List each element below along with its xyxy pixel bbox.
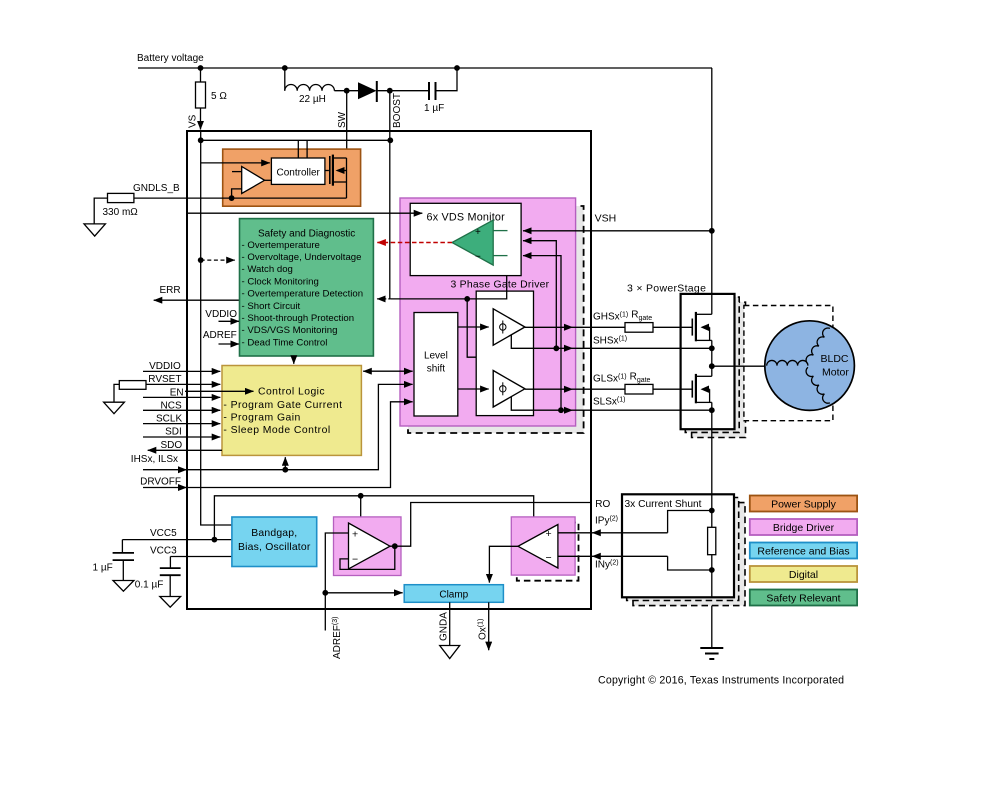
ground RVSET (114, 384, 119, 402)
ground vcc3 cap (160, 597, 181, 608)
svg-text:- Program Gate Current: - Program Gate Current (223, 400, 342, 411)
svg-text:VCC3: VCC3 (150, 545, 177, 556)
buffer low side driver (493, 371, 525, 408)
capacitor 1uF boost (428, 82, 430, 100)
svg-text:5 Ω: 5 Ω (211, 91, 227, 102)
block Control Logic (yellow) (222, 366, 361, 456)
wire GLS resistor to gate (653, 388, 692, 390)
op-amp U5 current shunt amp (pink) (511, 517, 575, 575)
legend Power Supply (750, 496, 857, 512)
wire VDS sense line to monitor (187, 212, 422, 214)
wire inductor to SW node (334, 90, 358, 92)
svg-text:1 µF: 1 µF (93, 563, 113, 574)
svg-text:ERR: ERR (160, 285, 181, 296)
wire red dashed VDS fault to safety (377, 242, 452, 244)
ground power earth (700, 647, 723, 649)
wire SW pin into chip (346, 91, 348, 158)
svg-text:SDI: SDI (165, 427, 182, 438)
block Controller box (271, 158, 325, 184)
svg-text:- Overvoltage, Undervoltage: - Overvoltage, Undervoltage (242, 252, 362, 263)
block 3x PowerStage box (681, 294, 735, 429)
capacitor 1uF vcc5 (121, 540, 123, 553)
wire right drain rail (711, 68, 713, 294)
capacitor 0.1uF vcc3 (169, 557, 171, 569)
legend Safety Relevant (750, 590, 857, 606)
svg-text:Safety and Diagnostic: Safety and Diagnostic (258, 229, 355, 240)
transistor M2 high side FET (691, 319, 693, 336)
block power stage shadows (692, 302, 746, 437)
svg-text:SW: SW (337, 111, 348, 128)
wire internal top rail (201, 139, 391, 141)
wire VCC5 bias rail (214, 496, 533, 540)
svg-text:0.1 µF: 0.1 µF (135, 580, 164, 591)
node Ox pin (488, 602, 490, 650)
svg-text:Bridge Driver: Bridge Driver (773, 522, 835, 534)
wire shunt chain (711, 494, 713, 597)
ground GNDLS (94, 198, 107, 224)
wire phase to motor (712, 365, 767, 367)
wire VDS monitor output net (390, 276, 506, 299)
block charge pump (orange) (223, 149, 361, 206)
block motor dashed boundary (744, 306, 833, 421)
svg-text:VCC5: VCC5 (150, 528, 177, 539)
wire ADREF to clamp (325, 592, 402, 594)
wire VS pin into chip (200, 108, 202, 130)
wire SHS to VDS monitor (523, 241, 556, 349)
svg-text:BLDC: BLDC (821, 353, 849, 365)
svg-text:3x Current Shunt: 3x Current Shunt (625, 499, 702, 510)
svg-text:RO: RO (595, 499, 610, 510)
legend Bridge Driver (750, 519, 857, 535)
svg-text:VSH: VSH (595, 213, 617, 225)
wire INy tap (668, 556, 712, 570)
svg-text:3 Phase Gate Driver: 3 Phase Gate Driver (451, 280, 550, 291)
wire U4 feedback (340, 546, 395, 569)
wire monitor net to buffers box (467, 299, 476, 357)
svg-text:- Overtemperature: - Overtemperature (242, 240, 320, 251)
wire GNDLS_B net (134, 197, 347, 199)
inductor 22uH (284, 68, 286, 91)
wire VSH to VDS monitor (523, 230, 712, 232)
svg-text:Safety Relevant: Safety Relevant (766, 593, 840, 605)
svg-text:- Watch dog: - Watch dog (242, 264, 293, 275)
svg-text:EN: EN (170, 387, 184, 398)
svg-text:Level: Level (424, 351, 448, 362)
ground vcc5 cap (113, 581, 134, 592)
wire dashed VS to safety (201, 259, 235, 261)
wire VS internal rail (201, 131, 232, 525)
svg-text:GNDA: GNDA (439, 612, 450, 641)
block Level shift (414, 313, 458, 417)
svg-text:+: + (546, 528, 552, 540)
svg-text:VDDIO: VDDIO (205, 309, 237, 320)
svg-text:DRVOFF: DRVOFF (140, 476, 181, 487)
wire SLS to VDS monitor (523, 256, 561, 411)
motor BLDC (765, 321, 855, 411)
block 3 Phase Gate Driver (pink) (400, 198, 576, 426)
svg-text:GNDLS_B: GNDLS_B (133, 183, 180, 194)
wire IPy tap (668, 511, 712, 533)
buffer high side driver (493, 309, 525, 345)
wire drain chain through power stage (711, 294, 713, 314)
node junction dots on battery rail (198, 65, 204, 71)
wire control logic to level shift (bidir) (363, 370, 412, 372)
transistor M3 low side FET (691, 381, 693, 398)
block shunt amp shadow dashed (517, 523, 579, 581)
wire ADREF net (325, 533, 348, 631)
svg-text:ADREF: ADREF (203, 330, 237, 341)
block Safety and Diagnostic (green) (240, 219, 374, 356)
svg-text:3 × PowerStage: 3 × PowerStage (627, 283, 706, 295)
op-amp U4 reference buffer (pink) (334, 517, 402, 576)
svg-text:1 µF: 1 µF (424, 103, 444, 114)
svg-text:- Short Circuit: - Short Circuit (242, 301, 301, 312)
legend Digital (750, 566, 857, 582)
svg-text:- Shoot-through Protection: - Shoot-through Protection (242, 313, 355, 324)
transistor M1 controller FET (329, 156, 331, 184)
svg-text:VDDIO: VDDIO (149, 361, 181, 372)
svg-text:- Clock Monitoring: - Clock Monitoring (242, 276, 319, 287)
wire GHS resistor to gate (653, 326, 692, 328)
svg-text:−: − (352, 554, 358, 566)
svg-text:- Overtemperature Detection: - Overtemperature Detection (242, 289, 364, 300)
diode D1 (358, 82, 377, 99)
svg-text:RVSET: RVSET (148, 374, 181, 385)
wire VS sense arrow into controller (201, 162, 270, 164)
wire rail stubs into controller (297, 140, 299, 158)
block Clamp (cyan) (404, 585, 503, 603)
svg-text:Bias, Oscillator: Bias, Oscillator (238, 542, 311, 553)
wire SHSx sense (511, 335, 712, 349)
svg-text:Battery voltage: Battery voltage (137, 53, 204, 64)
svg-text:shift: shift (427, 364, 446, 375)
svg-text:Digital: Digital (789, 569, 818, 581)
svg-text:330 mΩ: 330 mΩ (103, 207, 139, 218)
wire SHS SLS inside power stage (681, 347, 712, 349)
svg-text:- Sleep Mode Control: - Sleep Mode Control (223, 425, 330, 436)
svg-text:+: + (352, 529, 358, 541)
resistor shunt (708, 527, 716, 554)
wire VDS sense arrow segment over boxes (399, 212, 422, 214)
wire level shift to low buffer (458, 388, 489, 390)
svg-text:BOOST: BOOST (392, 93, 403, 128)
svg-text:- Dead Time Control: - Dead Time Control (242, 337, 328, 348)
op-amp U3 VDS comparator (green) (452, 220, 493, 265)
svg-text:Clamp: Clamp (439, 590, 468, 601)
node GNDA pin (449, 602, 451, 645)
block Bandgap Bias Oscillator (cyan) (232, 517, 317, 567)
svg-text:Motor: Motor (822, 366, 849, 378)
svg-text:SDO: SDO (161, 440, 183, 451)
wire GLSx gate drive (525, 388, 625, 390)
block 6x VDS Monitor box (410, 203, 521, 275)
op-amp U2 controller amp (242, 167, 265, 194)
svg-text:Controller: Controller (277, 167, 321, 178)
wire U5 output to clamp (489, 546, 518, 582)
block gate driver shadow (dashed) (408, 206, 584, 433)
svg-text:- Program Gain: - Program Gain (223, 413, 300, 424)
wire SLSx sense (511, 397, 712, 411)
svg-text:Copyright © 2016, Texas Instru: Copyright © 2016, Texas Instruments Inco… (598, 675, 844, 687)
wire safety to control logic (293, 356, 295, 364)
wire BOOST pin into chip (389, 91, 391, 299)
resistor 5 ohm (200, 68, 202, 82)
svg-text:- VDS/VGS Monitoring: - VDS/VGS Monitoring (242, 325, 338, 336)
wire level shift to high buffer (458, 326, 489, 328)
svg-text:−: − (546, 552, 552, 564)
wire U4 output and RO net (390, 503, 591, 547)
wire diode to BOOST node (377, 90, 429, 92)
svg-text:22 µH: 22 µH (299, 94, 326, 105)
node BOOST junction (387, 88, 393, 94)
block 3x Current Shunt box (622, 494, 734, 597)
svg-text:SCLK: SCLK (156, 414, 182, 425)
chip outline DRV8305 (187, 131, 591, 609)
svg-text:Power Supply: Power Supply (771, 499, 837, 511)
block gate buffers box (476, 291, 533, 416)
wire battery rail top (138, 67, 712, 69)
legend Reference and Bias (750, 543, 857, 559)
wire GHSx gate drive (525, 326, 625, 328)
svg-text:IHSx, ILSx: IHSx, ILSx (131, 454, 178, 465)
node SW junction (344, 88, 350, 94)
svg-text:Bandgap,: Bandgap, (251, 528, 297, 539)
svg-text:−: − (475, 252, 481, 263)
svg-text:+: + (475, 227, 481, 238)
svg-text:Reference and Bias: Reference and Bias (757, 546, 849, 558)
svg-text:VS: VS (188, 114, 199, 128)
svg-text:Control Logic: Control Logic (258, 386, 325, 397)
block current shunt shadows (633, 503, 745, 606)
